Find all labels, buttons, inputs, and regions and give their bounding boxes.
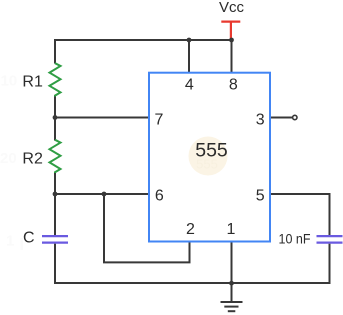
wire rail between R1 and R2: [54, 97, 56, 141]
wire pin 7 to left rail: [54, 117, 150, 119]
wire pin 8 to Vcc bus: [231, 39, 233, 74]
svg-text:2: 2: [186, 221, 195, 238]
op-amp/timer IC U1 555 body: [149, 73, 270, 242]
capacitor 10nF plate top: [317, 235, 343, 237]
svg-text:10 nF: 10 nF: [279, 231, 311, 247]
svg-text:7: 7: [155, 111, 164, 128]
junction node pin8/Vcc: [229, 38, 234, 43]
junction node pin2 loop on pin6 wire: [102, 192, 107, 197]
wire pin 1 to ground bus: [231, 241, 233, 283]
wire rail between R2 and C: [54, 173, 56, 235]
svg-text:10: 10: [1, 73, 18, 90]
wire bottom ground bus: [54, 282, 331, 284]
watermark circle inside IC: [189, 137, 228, 176]
wire pin 6 to left rail: [54, 193, 150, 195]
svg-text:20: 20: [0, 150, 17, 167]
svg-text:4: 4: [185, 77, 194, 94]
junction node R2/C/pin6: [53, 192, 58, 197]
wire pin 4 to Vcc bus: [188, 39, 190, 73]
svg-text:555: 555: [195, 140, 228, 162]
capacitor 10nF plate bottom: [317, 242, 343, 244]
edge watermark fragment n-stem near C: [21, 238, 23, 250]
svg-text:3: 3: [256, 111, 265, 128]
ground symbol bar 1: [221, 301, 243, 303]
junction node pin1/ground bus: [229, 281, 234, 286]
junction node R1/R2/pin7: [53, 115, 58, 120]
svg-text:1: 1: [227, 221, 236, 238]
ground symbol stem: [231, 283, 233, 302]
svg-text:Vcc: Vcc: [219, 0, 245, 16]
svg-text:8: 8: [229, 77, 238, 94]
capacitor C plate top: [42, 235, 68, 237]
svg-text:R1: R1: [22, 74, 43, 91]
svg-text:C: C: [23, 230, 35, 247]
svg-text:5: 5: [256, 187, 265, 204]
wire pin 3 output stub: [269, 117, 292, 119]
resistor R2: [50, 140, 61, 174]
capacitor C plate bottom: [42, 242, 68, 244]
wire top rail Vcc bus: [55, 39, 232, 41]
resistor R1: [50, 63, 61, 97]
svg-text:R2: R2: [22, 151, 43, 168]
Vcc supply symbol stem: [230, 22, 232, 39]
wire rail below C down to bottom-left corner: [54, 244, 56, 283]
ground symbol bar 3: [228, 310, 236, 312]
output terminal open circle: [293, 115, 297, 119]
svg-text:6: 6: [155, 187, 164, 204]
wire left rail upper segment: [54, 39, 56, 64]
junction node pin4/top rail: [187, 38, 192, 43]
ground symbol bar 2: [224, 306, 238, 308]
Vcc supply symbol bar: [221, 21, 240, 23]
wire pin 5 to right branch: [269, 194, 330, 235]
svg-text:1: 1: [6, 233, 14, 250]
wire pin 2 loop to pin 6 node: [104, 193, 190, 262]
wire 10nF bottom to ground bus: [329, 244, 331, 284]
